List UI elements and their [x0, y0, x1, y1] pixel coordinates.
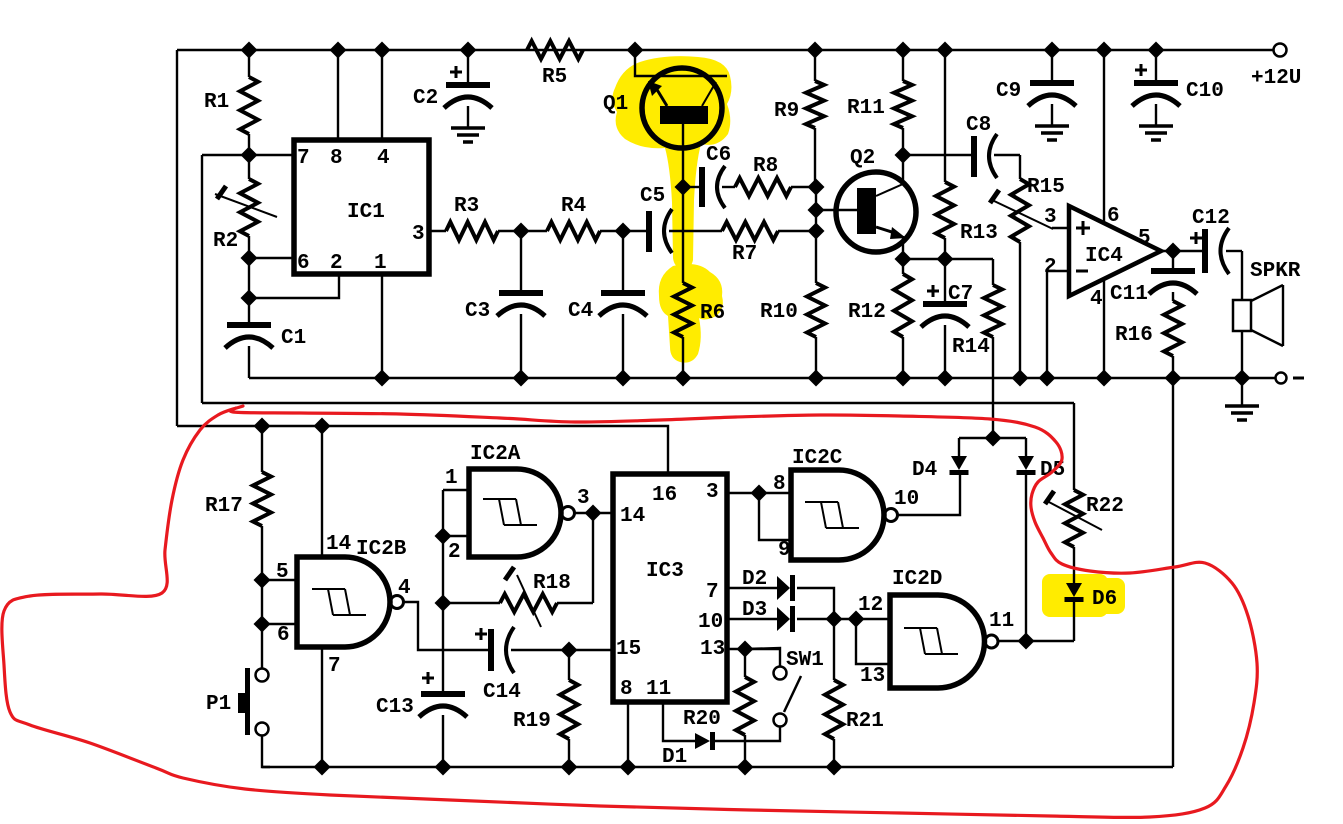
nand gate IC2A — [469, 443, 575, 557]
svg-text:3: 3 — [577, 487, 590, 510]
wire IC2B pin6 — [262, 623, 297, 625]
svg-text:C4: C4 — [568, 300, 593, 323]
node gnd/R10 — [808, 370, 825, 387]
wire lower bottom rail — [262, 766, 1173, 768]
node Q2 emitter bus — [895, 251, 912, 268]
node Q2 collector/R11/C8 — [895, 147, 912, 164]
svg-text:8: 8 — [773, 473, 786, 496]
node gnd/R19 — [561, 759, 578, 776]
wire R22 to D6 — [1073, 547, 1075, 583]
wire lower right gnd drop — [1172, 378, 1174, 767]
IC2B pin 7 label — [328, 655, 341, 678]
node rail/R17 — [254, 418, 271, 435]
wire pin7 feedback (x=202) — [201, 155, 203, 403]
wire IC3 pin13 — [727, 648, 780, 650]
wire P1 to rail — [262, 735, 270, 767]
svg-text:SW1: SW1 — [786, 649, 824, 672]
IC2B pin 5 label — [276, 561, 289, 584]
wire IC1 pin3 out — [429, 230, 446, 232]
svg-text:4: 4 — [1090, 288, 1103, 311]
node pin3/IC2C — [751, 485, 768, 502]
IC3 pin 11 label — [646, 678, 671, 701]
highlighter mark over Q1 — [612, 56, 731, 269]
wire D3 to gate — [797, 618, 856, 620]
node bus/Q2 base — [808, 202, 825, 219]
node rail/Q1 — [627, 42, 644, 59]
svg-text:4: 4 — [377, 147, 390, 170]
ground symbol C9 — [1035, 126, 1069, 140]
resistor R10 — [760, 283, 825, 378]
wire R15 wiper to pin3 — [1052, 227, 1069, 229]
wire C12 to speaker — [1241, 251, 1243, 300]
node gnd/pin8 — [620, 759, 637, 776]
svg-text:13: 13 — [860, 665, 885, 688]
node rail/R9 — [807, 42, 824, 59]
diode D4 — [912, 438, 969, 482]
svg-text:6: 6 — [297, 252, 310, 275]
wire R4-C5 — [600, 230, 646, 232]
wire Q2 collector — [902, 155, 904, 184]
svg-text:IC4: IC4 — [1085, 245, 1123, 268]
resistor R12 — [848, 259, 912, 378]
wire pin2 — [249, 274, 339, 298]
wire D2 to bus — [797, 588, 834, 619]
diode D6 — [1065, 583, 1118, 641]
IC2B pin 14 label — [326, 533, 351, 556]
capacitor C1 — [225, 298, 306, 378]
IC2A pin 3 label — [577, 487, 590, 510]
capacitor C9 — [996, 50, 1076, 126]
svg-text:IC1: IC1 — [347, 201, 385, 224]
svg-text:2: 2 — [448, 541, 461, 564]
IC2C pin 10 label — [894, 488, 919, 511]
IC2A pin 1 label — [445, 467, 458, 490]
svg-text:P1: P1 — [206, 693, 231, 716]
svg-text:C2: C2 — [413, 87, 438, 110]
IC1 pin 4 label — [377, 147, 390, 170]
svg-text:C13: C13 — [376, 696, 414, 719]
ground symbol C2 — [451, 128, 485, 142]
capacitor C4 — [568, 231, 647, 378]
resistor R14 — [952, 259, 1002, 438]
svg-text:R10: R10 — [760, 301, 798, 324]
node gnd/pin2 — [1039, 370, 1056, 387]
nand gate IC2C — [791, 447, 898, 560]
diode D3 — [742, 599, 793, 632]
svg-text:R1: R1 — [204, 91, 229, 114]
node R3/C3 — [513, 223, 530, 240]
svg-text:C3: C3 — [465, 300, 490, 323]
svg-text:1: 1 — [445, 467, 458, 490]
node D2/D3/R21 — [826, 611, 843, 628]
node IC2A out — [585, 505, 602, 522]
node R8/R9/R10 bus top — [808, 179, 825, 196]
wire speaker to gnd — [1241, 331, 1243, 378]
node R2/pin6 — [241, 250, 258, 267]
resistor R21 — [825, 619, 884, 767]
counter IC3 body — [613, 474, 727, 702]
svg-text:R11: R11 — [847, 97, 885, 120]
op-amp timer IC1 body — [294, 140, 429, 274]
svg-text:R15: R15 — [1027, 176, 1065, 199]
resistor R5 — [527, 41, 583, 89]
IC1 pin 1 label — [374, 252, 387, 275]
node rail/pin8 — [330, 42, 347, 59]
op-amp IC4 — [1069, 206, 1161, 296]
wire IC3 pin3 — [727, 492, 791, 494]
wire Q2 emitter — [902, 236, 904, 259]
svg-text:R21: R21 — [846, 710, 884, 733]
node pin6 tie — [254, 616, 271, 633]
svg-text:D2: D2 — [742, 568, 767, 591]
svg-text:8: 8 — [620, 678, 633, 701]
node pin12/13 tie — [848, 611, 865, 628]
potentiometer R18 — [443, 567, 593, 627]
node gnd/C13 — [435, 759, 452, 776]
svg-text:5: 5 — [1138, 227, 1151, 250]
svg-text:R14: R14 — [952, 336, 990, 359]
ground symbol C10 — [1139, 126, 1173, 140]
wire IC3 pin8 to gnd — [627, 702, 629, 767]
svg-text:15: 15 — [616, 638, 641, 661]
nand gate IC2D — [890, 568, 998, 688]
transistor Q1 — [603, 68, 722, 148]
IC1 pin 3 label — [412, 223, 425, 246]
wire IC1 pin8 to rail — [337, 50, 339, 140]
node rail/pin6 — [1096, 42, 1113, 59]
IC4 pin 6 label — [1107, 205, 1120, 228]
svg-text:IC2C: IC2C — [792, 447, 843, 470]
node gnd/pin1 — [374, 370, 391, 387]
highlighter mark over R6 — [659, 264, 723, 363]
IC1 pin 7 label — [297, 147, 310, 170]
wire to P1 — [261, 624, 263, 669]
wire IC2B pin5 — [262, 579, 297, 581]
svg-text:IC2B: IC2B — [356, 538, 407, 561]
node gnd/pin7 — [314, 759, 331, 776]
svg-text:D6: D6 — [1092, 588, 1117, 611]
wire IC4 pin4 to gnd — [1103, 279, 1105, 378]
node gnd/R15 — [1012, 370, 1029, 387]
svg-text:R18: R18 — [533, 572, 571, 595]
IC3 pin 10 label — [698, 611, 723, 634]
node D4/D5/R14 — [985, 430, 1002, 447]
wire R2 to C1 — [248, 258, 250, 298]
svg-text:7: 7 — [297, 147, 310, 170]
potentiometer R22 — [1045, 490, 1124, 547]
svg-text:R22: R22 — [1086, 495, 1124, 518]
svg-text:D4: D4 — [912, 459, 937, 482]
svg-text:R9: R9 — [774, 100, 799, 123]
wire IC2A pin2 — [443, 535, 469, 537]
svg-text:R5: R5 — [542, 66, 567, 89]
svg-text:7: 7 — [706, 581, 719, 604]
IC4 pin 3 label — [1044, 206, 1057, 229]
wire pin6 — [249, 257, 294, 259]
svg-text:3: 3 — [706, 481, 719, 504]
svg-text:R2: R2 — [213, 230, 238, 253]
node C14/R19/pin15 — [561, 642, 578, 659]
svg-text:10: 10 — [698, 611, 723, 634]
capacitor C12 — [1190, 207, 1242, 274]
resistor R19 — [513, 650, 578, 767]
svg-text:10: 10 — [894, 488, 919, 511]
resistor R8 — [735, 155, 816, 196]
svg-text:C6: C6 — [706, 144, 731, 167]
wire D5 cathode drop — [1025, 474, 1027, 641]
wire +12V top rail — [177, 49, 1273, 51]
IC2B hysteresis glyph — [312, 589, 366, 615]
node bus/R7 — [808, 223, 825, 240]
IC3 pin 15 label — [616, 638, 641, 661]
svg-text:C14: C14 — [483, 681, 521, 704]
node R1/R2/pin7 — [241, 147, 258, 164]
resistor R3 — [446, 195, 498, 240]
wire D4-D5 link — [959, 437, 1026, 439]
svg-text:R13: R13 — [960, 222, 998, 245]
svg-text:Q1: Q1 — [603, 93, 628, 116]
svg-text:5: 5 — [276, 561, 289, 584]
IC2D pin 12 label — [858, 594, 883, 617]
wire input tie — [261, 580, 263, 624]
svg-text:6: 6 — [277, 624, 290, 647]
svg-text:13: 13 — [700, 638, 725, 661]
wire IC2C output — [898, 471, 960, 515]
IC4 pin 5 label — [1138, 227, 1151, 250]
resistor R17 — [205, 426, 271, 580]
wire Q2 base — [816, 209, 858, 211]
wire IC3 pin11 to D1 — [663, 702, 695, 741]
node rail/R11 — [895, 42, 912, 59]
wire vibrato drop — [1073, 403, 1075, 490]
switch SW1 — [746, 648, 824, 727]
wire collector to C8 — [903, 154, 971, 156]
node rail/C10 — [1148, 42, 1165, 59]
wire left border — [176, 50, 178, 426]
wire IC2A output — [575, 512, 593, 514]
IC3 pin 8 label — [620, 678, 633, 701]
wire SW1 to D1 — [715, 727, 780, 741]
svg-text:1: 1 — [374, 252, 387, 275]
wire ground rail — [249, 377, 1275, 379]
wire IC3 pin7 — [727, 587, 777, 589]
node R17/pin5 — [254, 572, 271, 589]
potentiometer R2 — [213, 155, 277, 258]
svg-text:SPKR: SPKR — [1250, 260, 1301, 283]
IC2B pin 6 label — [277, 624, 290, 647]
node gnd/C4 — [615, 370, 632, 387]
IC1 pin 6 label — [297, 252, 310, 275]
svg-text:C8: C8 — [966, 114, 991, 137]
resistor R16 — [1115, 301, 1182, 378]
node gnd/R21 — [826, 759, 843, 776]
capacitor C5 — [640, 185, 722, 253]
node C7 top — [937, 251, 954, 268]
IC2A pin 2 label — [448, 541, 461, 564]
svg-text:R17: R17 — [205, 495, 243, 518]
capacitor C3 — [465, 231, 545, 378]
IC4 pin 4 label — [1090, 288, 1103, 311]
IC1 pin 8 label — [330, 147, 343, 170]
wire IC2D pin13 jog — [856, 619, 890, 664]
wire R3-R4 — [498, 230, 547, 232]
potentiometer R15 — [990, 155, 1065, 378]
resistor R11 — [847, 50, 912, 155]
capacitor C7 — [921, 259, 973, 378]
terminal minus — [1276, 373, 1305, 384]
node gnd/C7 — [937, 370, 954, 387]
node R2/C1/pin2 — [241, 290, 258, 307]
wire IC1 pin4 to rail — [381, 50, 383, 140]
IC2C pin 9 label — [778, 539, 791, 562]
IC3 pin 7 label — [706, 581, 719, 604]
IC3 pin 14 label — [620, 505, 645, 528]
wire IC2D output — [998, 640, 1074, 642]
svg-text:R6: R6 — [700, 302, 725, 325]
wire IC2C pin9 jog — [759, 493, 791, 540]
svg-text:R8: R8 — [753, 155, 778, 178]
node pins1-2 — [435, 528, 452, 545]
svg-text:R7: R7 — [732, 243, 757, 266]
IC1 pin 2 label — [330, 252, 343, 275]
node C13/R18 — [435, 595, 452, 612]
transistor Q2 — [836, 147, 916, 252]
diode D2 — [742, 568, 793, 601]
highlighter mark over D6 — [1042, 574, 1125, 617]
resistor R7 — [722, 222, 816, 266]
node gnd/C3 — [513, 370, 530, 387]
resistor R9 — [774, 50, 824, 187]
speaker SPKR — [1233, 260, 1301, 346]
node top rail / R1 — [241, 42, 258, 59]
svg-text:C11: C11 — [1110, 283, 1148, 306]
svg-text:D3: D3 — [742, 599, 767, 622]
resistor R1 — [204, 50, 258, 155]
IC2D pin 11 label — [989, 610, 1014, 633]
wire IC4 pin6 to rail — [1103, 50, 1105, 223]
svg-text:Q2: Q2 — [850, 147, 875, 170]
ground symbol main — [1225, 378, 1259, 420]
svg-text:9: 9 — [778, 539, 791, 562]
wire Q1 emitter feed — [635, 50, 727, 76]
node rail/C9 — [1044, 42, 1061, 59]
wire IC2B output — [404, 602, 488, 650]
capacitor C8 — [966, 114, 1020, 178]
IC3 pin 3 label — [706, 481, 719, 504]
svg-text:2: 2 — [330, 252, 343, 275]
capacitor C13 — [376, 672, 467, 767]
wire pin7 — [202, 154, 294, 156]
IC3 pin 13 label — [700, 638, 725, 661]
pushbutton P1 — [206, 668, 269, 736]
svg-text:3: 3 — [1044, 206, 1057, 229]
IC4 pin 2 label — [1044, 256, 1057, 279]
IC2A hysteresis glyph — [483, 499, 537, 525]
svg-text:R20: R20 — [683, 708, 721, 731]
diode D5 — [1017, 438, 1066, 482]
svg-text:C1: C1 — [281, 327, 306, 350]
svg-text:IC2D: IC2D — [892, 568, 942, 591]
IC3 pin 16 label — [652, 484, 677, 507]
node gnd/speaker — [1234, 370, 1251, 387]
svg-text:3: 3 — [412, 223, 425, 246]
resistor R4 — [547, 195, 600, 240]
capacitor C6 — [683, 144, 735, 208]
node Q1/C5/C6/R6 — [675, 179, 692, 196]
capacitor C10 — [1132, 50, 1224, 126]
svg-text:12: 12 — [858, 594, 883, 617]
node gnd/pin4 — [1096, 370, 1113, 387]
svg-text:R3: R3 — [454, 195, 479, 218]
capacitor C11 — [1110, 251, 1197, 306]
svg-text:C7: C7 — [948, 283, 973, 306]
svg-text:11: 11 — [989, 610, 1014, 633]
resistor R20 — [683, 649, 754, 767]
IC2D pin 13 label — [860, 665, 885, 688]
node rail/pin4 — [374, 42, 391, 59]
svg-text:16: 16 — [652, 484, 677, 507]
nand gate IC2B — [297, 538, 407, 647]
svg-text:C10: C10 — [1186, 80, 1224, 103]
svg-text:4: 4 — [398, 577, 411, 600]
svg-text:C12: C12 — [1192, 207, 1230, 230]
diode D1 — [662, 732, 713, 769]
svg-text:R12: R12 — [848, 301, 886, 324]
wire IC2B pin7 to gnd — [321, 647, 323, 767]
capacitor C2 — [413, 50, 492, 128]
node gnd/R6 — [675, 370, 692, 387]
IC2C hysteresis glyph — [805, 502, 859, 528]
svg-text:14: 14 — [326, 533, 351, 556]
svg-text:IC2A: IC2A — [470, 443, 521, 466]
node gnd/R20 — [737, 759, 754, 776]
wire IC4 output — [1161, 250, 1202, 252]
svg-text:R19: R19 — [513, 710, 551, 733]
resistor R6 — [674, 187, 725, 378]
wire IC2D pin12 — [856, 618, 890, 620]
wire IC4 pin2 to gnd — [1047, 271, 1069, 378]
wire IC2B pin14 to rail — [321, 426, 323, 557]
svg-text:C9: C9 — [996, 80, 1021, 103]
wire IC2A pin1 — [443, 489, 469, 491]
svg-text:C5: C5 — [640, 185, 665, 208]
node rail/R13 — [937, 42, 954, 59]
capacitor C14 — [475, 627, 613, 704]
svg-text:6: 6 — [1107, 205, 1120, 228]
terminal +12V — [1251, 44, 1301, 91]
IC2C pin 8 label — [773, 473, 786, 496]
svg-text:11: 11 — [646, 678, 671, 701]
wire emitter bus — [903, 258, 993, 260]
svg-text:D1: D1 — [662, 746, 687, 769]
wire Q1 base — [682, 124, 684, 187]
wire lower top rail — [177, 426, 668, 474]
wire bias bus — [815, 187, 817, 283]
svg-text:IC3: IC3 — [646, 560, 684, 583]
IC2B pin 4 label — [398, 577, 411, 600]
wire osc feedback drop — [592, 513, 594, 603]
node gnd/R12 — [895, 370, 912, 387]
node pin11/D5/D6 — [1018, 633, 1035, 650]
IC2D hysteresis glyph — [904, 628, 958, 654]
svg-text:R16: R16 — [1115, 324, 1153, 347]
node pin13/R20 — [737, 641, 754, 658]
svg-text:+12U: +12U — [1251, 67, 1301, 90]
wire IC3 pin14 — [593, 512, 613, 514]
wire IC3 pin10 — [727, 618, 777, 620]
wire IC1 pin1 to ground — [381, 274, 383, 378]
svg-text:14: 14 — [620, 505, 645, 528]
